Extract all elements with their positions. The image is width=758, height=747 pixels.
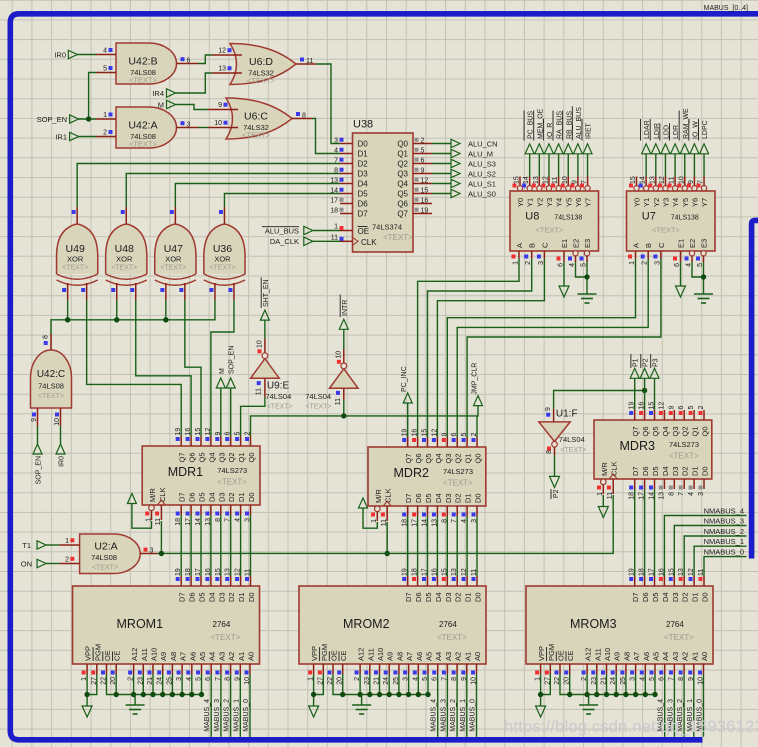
svg-text:NMABUS_1: NMABUS_1 <box>704 537 744 546</box>
svg-text:74LS04: 74LS04 <box>305 392 331 401</box>
svg-text:D3: D3 <box>671 592 680 602</box>
svg-text:U47: U47 <box>164 243 183 255</box>
svg-text:A1: A1 <box>463 652 472 661</box>
svg-text:13: 13 <box>658 492 665 500</box>
svg-text:MABUS_3: MABUS_3 <box>440 699 447 732</box>
svg-text:7: 7 <box>678 492 685 496</box>
svg-text:D5: D5 <box>424 592 433 602</box>
svg-text:74LS273: 74LS273 <box>217 466 247 475</box>
svg-text:Y7: Y7 <box>700 198 709 207</box>
svg-text:M/R: M/R <box>148 488 157 502</box>
svg-text:Q5: Q5 <box>651 426 660 436</box>
svg-text:Y3: Y3 <box>545 198 554 207</box>
svg-text:IRET: IRET <box>586 122 593 139</box>
svg-text:Q5: Q5 <box>198 452 207 462</box>
svg-text:E1: E1 <box>677 239 686 248</box>
svg-text:D4: D4 <box>434 592 443 602</box>
svg-text:U42:B: U42:B <box>128 56 157 68</box>
svg-text:12: 12 <box>235 568 242 576</box>
svg-text:D1: D1 <box>464 493 473 503</box>
svg-text:A12: A12 <box>130 648 139 661</box>
svg-text:Q2: Q2 <box>454 453 463 463</box>
svg-text:D0: D0 <box>358 140 369 149</box>
svg-text:<TEXT>: <TEXT> <box>267 404 293 411</box>
svg-text:A5: A5 <box>198 652 207 661</box>
svg-text:D1: D1 <box>464 592 473 602</box>
svg-text:74LS04: 74LS04 <box>265 392 291 401</box>
svg-text:D1: D1 <box>237 492 246 502</box>
svg-text:2764: 2764 <box>666 620 684 629</box>
svg-text:U42:C: U42:C <box>37 369 65 380</box>
svg-text:MABUS_0: MABUS_0 <box>243 699 250 732</box>
svg-text:U8: U8 <box>525 211 539 223</box>
svg-text:PGM: PGM <box>320 644 329 661</box>
svg-text:D6: D6 <box>641 466 650 476</box>
svg-text:A10: A10 <box>150 648 159 661</box>
svg-text:ALU_S2: ALU_S2 <box>468 170 496 179</box>
svg-text:<TEXT>: <TEXT> <box>62 265 88 272</box>
svg-text:12: 12 <box>421 177 429 184</box>
svg-text:15: 15 <box>195 428 202 436</box>
svg-text:OE: OE <box>330 650 339 661</box>
svg-text:15: 15 <box>514 176 521 184</box>
svg-text:D0: D0 <box>247 492 256 502</box>
svg-text:12: 12 <box>688 568 695 576</box>
svg-text:11: 11 <box>669 177 676 184</box>
svg-text:D2: D2 <box>227 592 236 602</box>
svg-text:8: 8 <box>546 450 553 454</box>
svg-text:18: 18 <box>412 568 419 576</box>
svg-text:M: M <box>219 368 226 374</box>
svg-text:5: 5 <box>688 406 695 410</box>
svg-text:MROM2: MROM2 <box>343 617 390 631</box>
svg-text:C: C <box>540 242 549 248</box>
svg-text:ALU_S0: ALU_S0 <box>468 190 496 199</box>
svg-text:P2: P2 <box>643 358 650 367</box>
svg-text:Y7: Y7 <box>584 198 593 207</box>
svg-text:U49: U49 <box>66 243 85 255</box>
svg-text:U42:A: U42:A <box>128 120 157 132</box>
svg-text:<TEXT>: <TEXT> <box>129 140 158 149</box>
svg-text:D5: D5 <box>198 492 207 502</box>
svg-text:MROM3: MROM3 <box>570 617 617 631</box>
svg-text:12: 12 <box>461 568 468 576</box>
svg-text:D3: D3 <box>444 493 453 503</box>
svg-text:XOR: XOR <box>116 255 133 264</box>
svg-text:E1: E1 <box>560 239 569 248</box>
svg-text:A11: A11 <box>140 648 149 661</box>
svg-text:10: 10 <box>214 120 222 127</box>
svg-text:A2: A2 <box>681 652 690 661</box>
svg-text:1: 1 <box>334 224 338 231</box>
svg-text:12: 12 <box>659 176 666 184</box>
svg-text:D0: D0 <box>247 592 256 602</box>
svg-text:MDR3: MDR3 <box>620 439 655 453</box>
svg-text:14: 14 <box>640 176 647 184</box>
svg-text:12: 12 <box>431 429 438 437</box>
svg-text:D4: D4 <box>358 180 369 189</box>
svg-text:19: 19 <box>421 207 429 214</box>
svg-text:https://blog.csdn.net/qq_15936: https://blog.csdn.net/qq_15936123 <box>504 718 758 736</box>
svg-text:D5: D5 <box>358 190 369 199</box>
svg-text:MABUS_1: MABUS_1 <box>233 699 240 732</box>
svg-text:D0: D0 <box>701 466 710 476</box>
svg-text:19: 19 <box>629 568 636 576</box>
svg-text:D2: D2 <box>454 592 463 602</box>
svg-text:<TEXT>: <TEXT> <box>211 633 241 642</box>
svg-text:74LS273: 74LS273 <box>669 440 699 449</box>
svg-text:A10: A10 <box>376 648 385 661</box>
svg-text:6: 6 <box>678 406 685 410</box>
svg-text:ALU_S1: ALU_S1 <box>468 180 496 189</box>
svg-text:D3: D3 <box>217 592 226 602</box>
svg-text:MABUS_0: MABUS_0 <box>470 699 477 732</box>
svg-text:13: 13 <box>225 568 232 576</box>
svg-text:2: 2 <box>245 432 252 436</box>
svg-text:A6: A6 <box>415 652 424 661</box>
svg-text:U9:E: U9:E <box>267 381 290 392</box>
svg-text:5: 5 <box>103 66 107 73</box>
svg-text:SOP_EN: SOP_EN <box>229 346 236 374</box>
svg-text:D7: D7 <box>178 592 187 602</box>
svg-text:11: 11 <box>335 398 342 405</box>
svg-text:16: 16 <box>205 568 212 576</box>
svg-text:2: 2 <box>65 557 69 564</box>
svg-text:MABUS_4: MABUS_4 <box>204 699 211 732</box>
svg-text:15: 15 <box>441 568 448 576</box>
svg-text:D5: D5 <box>424 493 433 503</box>
svg-text:<TEXT>: <TEXT> <box>242 131 271 140</box>
svg-text:C: C <box>657 242 666 248</box>
svg-text:E2: E2 <box>572 239 581 248</box>
svg-text:D6: D6 <box>414 493 423 503</box>
svg-text:10: 10 <box>54 418 61 426</box>
svg-text:PGM: PGM <box>547 644 556 661</box>
svg-text:A4: A4 <box>208 652 217 661</box>
svg-text:4: 4 <box>334 147 338 154</box>
svg-text:12: 12 <box>542 176 549 184</box>
svg-text:11: 11 <box>306 58 313 65</box>
svg-text:16: 16 <box>658 568 665 576</box>
svg-text:<TEXT>: <TEXT> <box>247 76 276 85</box>
svg-text:Y3: Y3 <box>661 198 670 207</box>
svg-text:13: 13 <box>533 176 540 184</box>
svg-text:D0: D0 <box>701 592 710 602</box>
svg-text:ALU_CN: ALU_CN <box>468 140 498 149</box>
svg-text:D6: D6 <box>188 592 197 602</box>
svg-text:Q1: Q1 <box>464 453 473 463</box>
svg-text:Q3: Q3 <box>397 170 408 179</box>
svg-text:A12: A12 <box>584 648 593 661</box>
svg-text:Q1: Q1 <box>237 452 246 462</box>
svg-text:U38: U38 <box>353 119 373 131</box>
svg-text:A2: A2 <box>454 652 463 661</box>
svg-text:NMABUS_2: NMABUS_2 <box>704 527 744 536</box>
svg-text:Q0: Q0 <box>247 452 256 462</box>
svg-text:Q3: Q3 <box>671 426 680 436</box>
svg-text:9: 9 <box>571 180 578 184</box>
svg-text:<TEXT>: <TEXT> <box>652 226 681 235</box>
svg-text:SOP_EN: SOP_EN <box>37 115 67 124</box>
svg-text:VPP: VPP <box>84 646 93 661</box>
svg-text:CE: CE <box>339 651 348 661</box>
svg-text:A4: A4 <box>661 652 670 661</box>
svg-text:15: 15 <box>422 429 429 437</box>
svg-text:A12: A12 <box>357 648 366 661</box>
svg-text:D5: D5 <box>198 592 207 602</box>
svg-text:15: 15 <box>421 187 429 194</box>
svg-text:A4: A4 <box>434 652 443 661</box>
svg-text:Q7: Q7 <box>404 453 413 463</box>
svg-text:A0: A0 <box>247 652 256 661</box>
svg-text:Y4: Y4 <box>555 198 564 207</box>
svg-text:Q4: Q4 <box>397 180 408 189</box>
svg-text:CLK: CLK <box>610 461 619 476</box>
svg-text:11: 11 <box>552 177 559 184</box>
svg-text:A0: A0 <box>473 652 482 661</box>
svg-text:ALU_S3: ALU_S3 <box>468 160 496 169</box>
svg-text:Q0: Q0 <box>474 453 483 463</box>
svg-text:A: A <box>632 243 641 248</box>
svg-text:A7: A7 <box>405 652 414 661</box>
svg-text:7: 7 <box>581 180 588 184</box>
svg-text:4: 4 <box>688 492 695 496</box>
svg-text:D4: D4 <box>207 492 216 502</box>
svg-text:Q3: Q3 <box>444 453 453 463</box>
svg-text:U2:A: U2:A <box>94 541 117 553</box>
svg-text:M: M <box>158 100 164 109</box>
svg-text:MABUS_2: MABUS_2 <box>450 699 457 732</box>
svg-text:10: 10 <box>256 340 263 348</box>
svg-text:74LS08: 74LS08 <box>38 382 64 391</box>
svg-text:A: A <box>515 243 524 248</box>
svg-text:U7: U7 <box>642 211 656 223</box>
svg-text:D6: D6 <box>641 592 650 602</box>
svg-text:OE: OE <box>557 650 566 661</box>
svg-text:XOR: XOR <box>67 255 84 264</box>
svg-text:15: 15 <box>215 568 222 576</box>
svg-text:Q1: Q1 <box>397 150 408 159</box>
svg-text:9: 9 <box>215 432 222 436</box>
svg-text:Q5: Q5 <box>424 453 433 463</box>
svg-text:10: 10 <box>562 176 569 184</box>
svg-text:9: 9 <box>218 102 222 109</box>
svg-text:3: 3 <box>698 492 705 496</box>
svg-text:19: 19 <box>402 429 409 437</box>
svg-text:74LS273: 74LS273 <box>443 467 473 476</box>
svg-text:Q2: Q2 <box>681 426 690 436</box>
svg-text:3: 3 <box>150 547 154 554</box>
svg-text:D7: D7 <box>631 592 640 602</box>
svg-text:Y2: Y2 <box>652 198 661 207</box>
svg-text:D0: D0 <box>474 493 483 503</box>
svg-text:Q6: Q6 <box>641 426 650 436</box>
svg-text:IR0: IR0 <box>59 456 66 467</box>
svg-text:17: 17 <box>422 568 429 576</box>
svg-text:Y2: Y2 <box>535 198 544 207</box>
svg-text:INTR: INTR <box>342 300 349 316</box>
svg-text:Q5: Q5 <box>397 190 408 199</box>
svg-text:Y4: Y4 <box>671 198 680 207</box>
svg-text:D6: D6 <box>188 492 197 502</box>
svg-text:2: 2 <box>421 137 425 144</box>
svg-text:D2: D2 <box>227 492 236 502</box>
svg-text:Q4: Q4 <box>207 452 216 462</box>
svg-text:Q4: Q4 <box>661 426 670 436</box>
svg-text:D7: D7 <box>358 210 369 219</box>
svg-text:DA_CLK: DA_CLK <box>270 237 299 246</box>
svg-text:D4: D4 <box>434 493 443 503</box>
svg-text:16: 16 <box>185 428 192 436</box>
svg-text:A6: A6 <box>188 652 197 661</box>
svg-text:CLK: CLK <box>384 488 393 503</box>
svg-text:E2: E2 <box>688 239 697 248</box>
svg-text:6: 6 <box>187 57 191 64</box>
svg-text:Q6: Q6 <box>414 453 423 463</box>
svg-text:D1: D1 <box>691 592 700 602</box>
svg-text:CE: CE <box>113 651 122 661</box>
svg-text:<TEXT>: <TEXT> <box>536 226 565 235</box>
svg-text:A9: A9 <box>159 652 168 661</box>
svg-text:19: 19 <box>175 568 182 576</box>
svg-text:<TEXT>: <TEXT> <box>129 76 158 85</box>
svg-text:<TEXT>: <TEXT> <box>160 265 186 272</box>
svg-text:A3: A3 <box>444 652 453 661</box>
svg-text:19: 19 <box>175 428 182 436</box>
svg-text:9: 9 <box>545 407 552 411</box>
svg-text:T1: T1 <box>22 541 31 550</box>
svg-text:B: B <box>644 243 653 248</box>
svg-text:A5: A5 <box>652 652 661 661</box>
svg-text:9: 9 <box>441 433 448 437</box>
svg-text:D4: D4 <box>207 592 216 602</box>
svg-text:D7: D7 <box>178 492 187 502</box>
svg-text:74LS138: 74LS138 <box>554 215 582 222</box>
svg-text:D5: D5 <box>651 592 660 602</box>
svg-text:Y0: Y0 <box>516 198 525 207</box>
svg-text:<TEXT>: <TEXT> <box>437 633 467 642</box>
svg-text:D6: D6 <box>358 200 369 209</box>
svg-text:6: 6 <box>451 433 458 437</box>
svg-text:OE: OE <box>103 650 112 661</box>
svg-text:2764: 2764 <box>439 620 457 629</box>
svg-text:Q4: Q4 <box>434 453 443 463</box>
svg-text:OE: OE <box>358 227 370 236</box>
svg-text:D0: D0 <box>474 592 483 602</box>
svg-text:U48: U48 <box>115 243 134 255</box>
svg-text:2764: 2764 <box>213 620 231 629</box>
svg-text:74LS374: 74LS374 <box>372 223 402 232</box>
svg-text:D2: D2 <box>681 592 690 602</box>
svg-text:D7: D7 <box>631 466 640 476</box>
svg-text:<TEXT>: <TEXT> <box>383 233 413 242</box>
svg-text:D3: D3 <box>671 466 680 476</box>
svg-text:12: 12 <box>205 428 212 436</box>
svg-text:D1: D1 <box>691 466 700 476</box>
svg-text:P3: P3 <box>653 358 660 367</box>
svg-text:19: 19 <box>402 568 409 576</box>
svg-text:A11: A11 <box>593 648 602 661</box>
svg-text:D1: D1 <box>237 592 246 602</box>
svg-text:NMABUS_3: NMABUS_3 <box>704 517 744 526</box>
svg-text:10: 10 <box>336 351 343 359</box>
svg-text:IR1: IR1 <box>55 133 67 142</box>
svg-text:D3: D3 <box>444 592 453 602</box>
svg-text:7: 7 <box>698 180 705 184</box>
svg-text:NMABUS_4: NMABUS_4 <box>704 507 744 516</box>
svg-text:4: 4 <box>103 48 107 55</box>
svg-text:SOP_EN: SOP_EN <box>36 456 43 484</box>
svg-text:11: 11 <box>471 569 478 576</box>
svg-text:A9: A9 <box>613 652 622 661</box>
svg-text:CLK: CLK <box>158 487 167 502</box>
svg-text:A1: A1 <box>237 652 246 661</box>
svg-text:Q2: Q2 <box>227 452 236 462</box>
svg-text:A8: A8 <box>622 652 631 661</box>
svg-text:Q2: Q2 <box>397 160 408 169</box>
svg-text:VPP: VPP <box>537 646 546 661</box>
svg-text:8: 8 <box>43 335 50 339</box>
svg-text:Y6: Y6 <box>690 198 699 207</box>
svg-text:CLK: CLK <box>361 238 377 247</box>
svg-text:MDR2: MDR2 <box>394 466 429 480</box>
svg-text:D4: D4 <box>661 592 670 602</box>
svg-text:MABUS_3: MABUS_3 <box>214 699 221 732</box>
svg-text:13: 13 <box>218 66 226 73</box>
svg-text:Q0: Q0 <box>397 140 408 149</box>
svg-text:13: 13 <box>451 568 458 576</box>
svg-text:A2: A2 <box>227 652 236 661</box>
svg-text:Y5: Y5 <box>564 198 573 207</box>
svg-text:D2: D2 <box>454 493 463 503</box>
svg-text:MABUS_[0..4]: MABUS_[0..4] <box>704 5 748 12</box>
svg-text:A5: A5 <box>425 652 434 661</box>
svg-text:8: 8 <box>302 112 306 119</box>
svg-text:A1: A1 <box>690 652 699 661</box>
svg-text:Y0: Y0 <box>633 198 642 207</box>
svg-text:U6:D: U6:D <box>249 56 273 68</box>
svg-text:P1: P1 <box>633 358 640 367</box>
svg-text:A3: A3 <box>217 652 226 661</box>
svg-text:5: 5 <box>421 147 425 154</box>
svg-text:Y1: Y1 <box>642 198 651 207</box>
svg-text:Q7: Q7 <box>631 426 640 436</box>
svg-text:18: 18 <box>185 568 192 576</box>
svg-text:<TEXT>: <TEXT> <box>664 633 694 642</box>
svg-text:CE: CE <box>566 651 575 661</box>
svg-text:MROM1: MROM1 <box>117 617 164 631</box>
svg-text:U6:C: U6:C <box>244 111 268 123</box>
svg-text:A10: A10 <box>603 648 612 661</box>
svg-text:14: 14 <box>523 176 530 184</box>
svg-text:D7: D7 <box>404 592 413 602</box>
svg-text:16: 16 <box>431 568 438 576</box>
svg-text:74LS138: 74LS138 <box>671 215 699 222</box>
svg-text:ON: ON <box>21 560 32 569</box>
svg-text:PC_INC: PC_INC <box>401 366 408 392</box>
svg-text:5: 5 <box>461 433 468 437</box>
svg-text:12: 12 <box>218 48 226 55</box>
svg-text:XOR: XOR <box>214 255 231 264</box>
svg-text:3: 3 <box>187 121 191 128</box>
svg-text:D4: D4 <box>661 466 670 476</box>
svg-text:15: 15 <box>630 176 637 184</box>
svg-text:M/R: M/R <box>600 462 609 476</box>
svg-text:12: 12 <box>658 402 665 410</box>
svg-text:ALU_M: ALU_M <box>468 150 493 159</box>
svg-text:11: 11 <box>256 388 263 395</box>
svg-text:U1:F: U1:F <box>556 408 578 419</box>
